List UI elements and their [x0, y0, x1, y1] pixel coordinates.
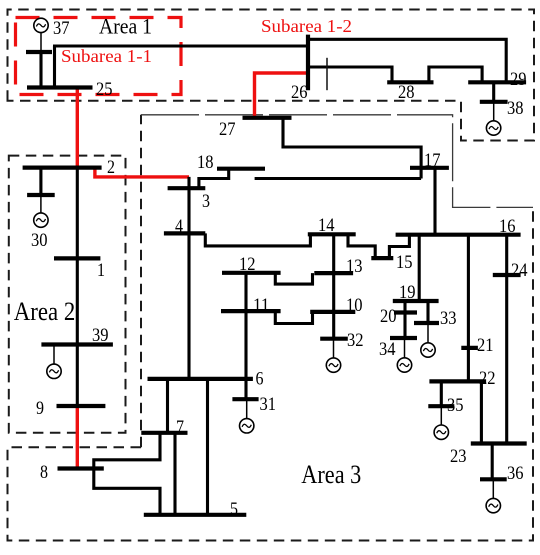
bus 7 bar	[141, 431, 187, 435]
wire 29-38	[492, 82, 495, 102]
svg-text:39: 39	[92, 325, 109, 346]
bus 1 bar	[54, 256, 100, 260]
bus 30 bar	[27, 193, 55, 197]
bus 11 bar	[221, 309, 281, 313]
svg-text:30: 30	[31, 230, 48, 251]
Area 2 dashed boundary	[9, 156, 126, 433]
bus 29 bar	[468, 80, 526, 84]
svg-text:24: 24	[511, 260, 528, 281]
svg-text:17: 17	[424, 150, 441, 171]
bus 5 bar	[144, 513, 247, 517]
svg-text:37: 37	[53, 18, 70, 39]
bus 9 bar	[57, 404, 106, 408]
bus 37 bar	[26, 50, 52, 54]
wire 7-5	[173, 433, 176, 515]
bus 3 bar	[168, 186, 206, 190]
wire 6-5	[206, 379, 209, 515]
svg-text:20: 20	[380, 306, 397, 327]
generator G39	[47, 345, 61, 379]
svg-text:21: 21	[477, 335, 494, 356]
Area 3 dashed boundary (main)	[8, 207, 534, 540]
svg-text:38: 38	[507, 98, 524, 119]
wire 16-24-23	[505, 235, 508, 444]
wire 12-13	[275, 273, 312, 284]
wire 23-36	[491, 444, 494, 480]
generator G31	[240, 399, 254, 433]
generator G30	[34, 195, 48, 227]
wire 18-17	[255, 177, 422, 180]
svg-text:27: 27	[219, 119, 236, 140]
bus 31 bar	[232, 397, 258, 401]
bus 20 bar	[394, 310, 417, 314]
bus 28 bar	[387, 80, 433, 84]
svg-text:26: 26	[291, 82, 308, 103]
Area 1 dashed boundary	[8, 10, 535, 141]
bus 6 bar	[148, 377, 253, 381]
svg-text:19: 19	[399, 282, 416, 303]
wire 2-1-39-9 vertical	[76, 168, 79, 406]
wire 22-35	[440, 381, 443, 406]
wire 14-13-10-32 vertical	[332, 234, 335, 338]
wire 28-29	[429, 67, 482, 82]
wire 25-26 riser	[53, 46, 56, 88]
Area 3 dashed boundary (top, long dashes)	[141, 115, 533, 208]
svg-text:1: 1	[97, 260, 105, 281]
svg-text:18: 18	[197, 152, 214, 173]
bus 32 bar	[320, 337, 348, 341]
wire 15-16	[389, 235, 409, 258]
svg-text:25: 25	[96, 79, 113, 100]
bus 23 bar	[471, 441, 527, 445]
svg-text:29: 29	[510, 69, 527, 90]
bus 35 bar	[428, 404, 454, 408]
bus 21 bar	[461, 346, 478, 350]
svg-text:32: 32	[347, 330, 364, 351]
svg-text:8: 8	[40, 462, 48, 483]
svg-text:6: 6	[256, 368, 264, 389]
wire 16-21-22	[467, 235, 470, 382]
generator G33	[421, 323, 435, 357]
svg-text:Area 2: Area 2	[14, 297, 76, 326]
svg-text:14: 14	[318, 215, 335, 236]
wire 6-7	[166, 379, 169, 433]
wire 37bar-25	[39, 52, 42, 88]
measurement tick 26-28	[326, 58, 328, 90]
red line 26-27	[255, 73, 309, 118]
svg-text:3: 3	[202, 191, 210, 212]
svg-text:Subarea 1-2: Subarea 1-2	[261, 16, 352, 36]
wire 2-30 drop	[39, 168, 42, 195]
wire 25-26	[53, 44, 308, 47]
bus 26 bar	[306, 35, 310, 91]
svg-text:36: 36	[507, 463, 524, 484]
wire 17-16	[433, 168, 436, 235]
svg-text:16: 16	[499, 216, 516, 237]
svg-text:2: 2	[107, 157, 115, 178]
wire 26-28	[308, 67, 392, 82]
Area 3 dashed boundary (left edge)	[140, 115, 142, 448]
wire 18 step from bus3	[199, 169, 229, 188]
svg-text:15: 15	[396, 252, 413, 273]
generator G34	[397, 338, 411, 372]
wire 26-29 top	[308, 39, 506, 82]
bus 10 bar	[310, 310, 355, 314]
bus 36 bar	[480, 477, 507, 481]
bus 19 bar	[393, 299, 439, 303]
bus 18 bar	[217, 167, 265, 171]
wire 19-33	[426, 301, 429, 323]
svg-text:10: 10	[346, 295, 363, 316]
wire 4-14	[205, 233, 310, 246]
svg-text:23: 23	[450, 446, 467, 467]
wire 8-5	[94, 469, 160, 515]
svg-text:9: 9	[36, 398, 44, 419]
svg-text:31: 31	[260, 394, 277, 415]
svg-text:11: 11	[253, 295, 270, 316]
wire 22-23	[480, 381, 483, 443]
generator G36	[486, 479, 500, 513]
svg-text:Area 1: Area 1	[99, 14, 152, 39]
wire 11-10	[275, 311, 312, 323]
Subarea 1-1 red dashed box	[16, 18, 182, 95]
bus 15 bar	[371, 256, 393, 260]
wire 27-17	[283, 118, 421, 179]
svg-text:4: 4	[175, 216, 183, 237]
svg-text:12: 12	[239, 254, 256, 275]
bus 17 bar	[410, 166, 449, 170]
bus 33 bar	[414, 321, 439, 325]
svg-text:34: 34	[379, 339, 396, 360]
generator G35	[434, 406, 448, 439]
wire 19-20-34	[403, 301, 406, 338]
generator G37	[34, 18, 48, 52]
bus 22 bar	[429, 379, 486, 383]
svg-text:13: 13	[346, 256, 363, 277]
svg-text:22: 22	[479, 368, 496, 389]
svg-text:Area 3: Area 3	[301, 460, 361, 489]
svg-text:7: 7	[176, 417, 184, 438]
bus 27 bar	[243, 116, 292, 120]
bus 25 bar	[27, 85, 93, 89]
bus 39 bar	[41, 342, 113, 346]
bus 14 bar	[308, 232, 356, 236]
wire 3-4-6 vertical	[187, 177, 190, 379]
bus 2 bar	[23, 166, 102, 170]
svg-text:28: 28	[398, 82, 415, 103]
red line 2-3	[95, 168, 189, 177]
wire 8-7	[94, 433, 160, 469]
red line 9-8	[76, 406, 79, 469]
generator G38	[486, 102, 500, 135]
svg-text:35: 35	[447, 395, 464, 416]
bus 4 bar	[164, 231, 205, 235]
bus 8 bar	[58, 466, 104, 470]
svg-text:Subarea 1-1: Subarea 1-1	[61, 46, 152, 66]
wire 12-11-6-31 vertical	[244, 273, 247, 399]
wire 16-19	[418, 235, 421, 301]
svg-text:5: 5	[230, 499, 238, 520]
bus 34 bar	[390, 336, 417, 340]
bus 12 bar	[222, 271, 281, 275]
svg-text:33: 33	[440, 308, 457, 329]
red line 25-2	[76, 88, 79, 168]
bus 13 bar	[314, 271, 353, 275]
bus 16 bar	[396, 233, 521, 237]
bus 24 bar	[493, 273, 521, 277]
wire 14-15	[348, 234, 375, 258]
bus 38 bar	[480, 100, 508, 104]
generator G32	[326, 339, 340, 373]
